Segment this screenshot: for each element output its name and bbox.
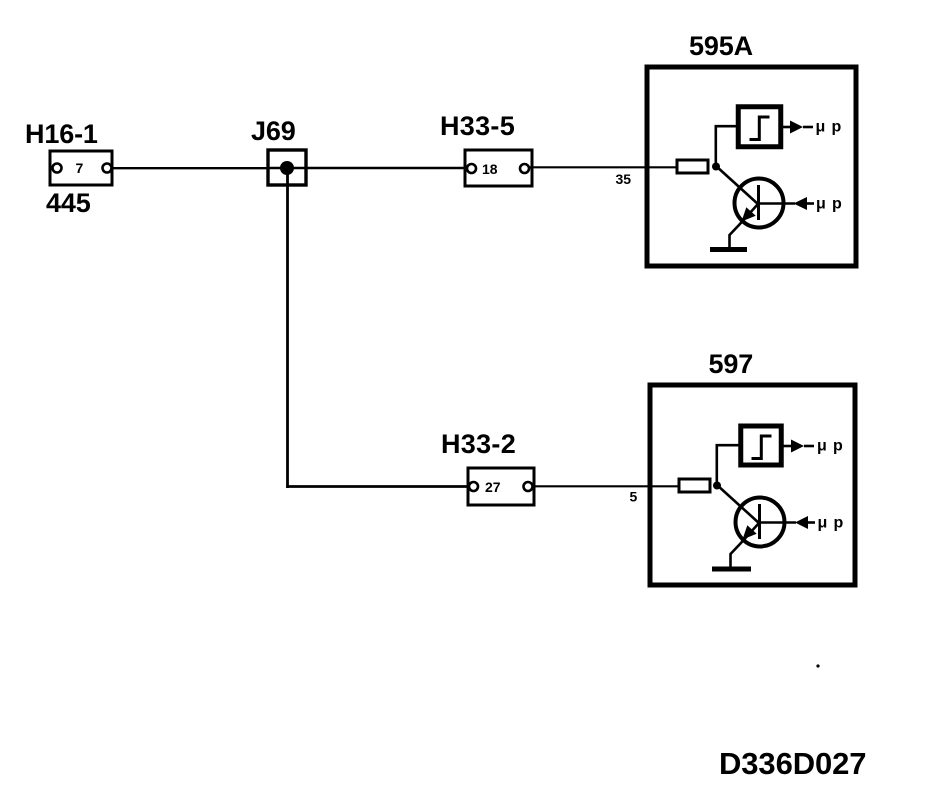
transistor emitter arrowhead 597 [743, 525, 757, 539]
svg-text:p: p [832, 119, 842, 136]
svg-text:H33-2: H33-2 [441, 429, 516, 459]
wire H16-1 to J69 [111, 167, 270, 169]
transistor collector wire 595A [759, 202, 795, 204]
microprocessor label upper 597 [817, 438, 843, 455]
control unit 595A box [647, 67, 856, 266]
connector H33-2 pin circle right [524, 482, 533, 491]
schmitt trigger box 595A [738, 107, 781, 147]
connector H16-1 body [50, 151, 112, 185]
speck dot [816, 664, 819, 667]
connector H16-1 value label 445 [46, 188, 91, 218]
arrow right to microprocessor 597 upper [791, 440, 814, 453]
svg-text:595A: 595A [689, 31, 753, 61]
wire schmitt output 597 [783, 445, 791, 448]
connector H33-5 pin circle right [520, 164, 529, 173]
transistor emitter arrowhead 595A [742, 207, 756, 221]
svg-text:p: p [833, 438, 843, 455]
wire junction up to schmitt 597 [717, 445, 739, 485]
transistor base bar 595A [757, 185, 760, 220]
connector H33-5 pin 18 label [482, 161, 498, 177]
resistor in 597 [679, 479, 710, 492]
ground in 597 [712, 567, 751, 572]
svg-text:35: 35 [616, 171, 632, 187]
node junction after resistor 595A [712, 163, 720, 171]
svg-text:μ: μ [816, 119, 826, 136]
resistor in 595A [677, 160, 708, 173]
wire base diagonal 595A [716, 166, 759, 205]
transistor Q in 597 circle [736, 498, 785, 547]
svg-text:p: p [834, 515, 844, 532]
wire J69 to H33-2 horizontal [286, 485, 468, 488]
wire H33-2 to 597 [532, 485, 680, 487]
wire label 35 [616, 171, 632, 187]
transistor Q in 595A circle [735, 179, 784, 228]
connector H33-2 pin circle left [469, 482, 478, 491]
svg-text:J69: J69 [251, 116, 296, 146]
svg-text:H33-5: H33-5 [440, 111, 515, 141]
microprocessor label lower 595A [816, 196, 842, 213]
schmitt step symbol 595A [750, 117, 770, 140]
node junction after resistor 597 [713, 482, 721, 490]
microprocessor label lower 597 [818, 515, 844, 532]
transistor emitter wire 595A [730, 204, 759, 248]
arrow right to microprocessor 595A upper [790, 121, 813, 134]
wire schmitt output 595A [781, 126, 790, 129]
arrow left from microprocessor 597 lower [795, 516, 815, 529]
schmitt step symbol 597 [752, 436, 772, 459]
connector H16-1 label [25, 119, 98, 149]
junction J69 box [268, 150, 306, 185]
svg-text:445: 445 [46, 188, 91, 218]
svg-text:7: 7 [76, 160, 84, 176]
microprocessor label upper 595A [816, 119, 842, 136]
figure number D336D027 [719, 746, 866, 781]
svg-text:18: 18 [482, 161, 498, 177]
svg-text:5: 5 [630, 489, 638, 505]
connector H33-2 pin 27 label [485, 479, 501, 495]
svg-text:μ: μ [818, 515, 828, 532]
wire label 5 [630, 489, 638, 505]
junction J69 label [251, 116, 296, 146]
wire through J69 to H33-5 [270, 167, 467, 169]
control unit 597 box [650, 385, 855, 585]
svg-text:p: p [832, 196, 842, 213]
wire H33-5 to 595A [529, 166, 678, 168]
wire base diagonal 597 [717, 485, 760, 524]
control unit 595A label [689, 31, 753, 61]
schmitt trigger box 597 [741, 426, 782, 465]
svg-text:H16-1: H16-1 [25, 119, 98, 149]
connector H16-1 pin circle left [53, 164, 62, 173]
svg-text:μ: μ [816, 196, 826, 213]
wire junction up to schmitt 595A [716, 126, 738, 166]
connector H33-5 body [465, 150, 532, 186]
ground in 595A [710, 247, 747, 252]
svg-text:597: 597 [709, 349, 754, 379]
connector H33-2 body [468, 468, 534, 505]
junction J69 node dot [280, 161, 294, 175]
transistor emitter wire 597 [731, 523, 760, 567]
svg-text:27: 27 [485, 479, 501, 495]
connector H33-2 label [441, 429, 516, 459]
wire J69 down [286, 168, 289, 488]
svg-text:D336D027: D336D027 [719, 746, 866, 781]
connector H16-1 pin circle right [103, 164, 112, 173]
svg-text:μ: μ [817, 438, 827, 455]
connector H33-5 pin circle left [467, 164, 476, 173]
transistor base bar 597 [758, 504, 761, 539]
connector H33-5 label [440, 111, 515, 141]
control unit 597 label [709, 349, 754, 379]
arrow left from microprocessor 595A lower [794, 197, 815, 210]
transistor collector wire 597 [760, 521, 796, 523]
connector H16-1 pin 7 label [76, 160, 84, 176]
